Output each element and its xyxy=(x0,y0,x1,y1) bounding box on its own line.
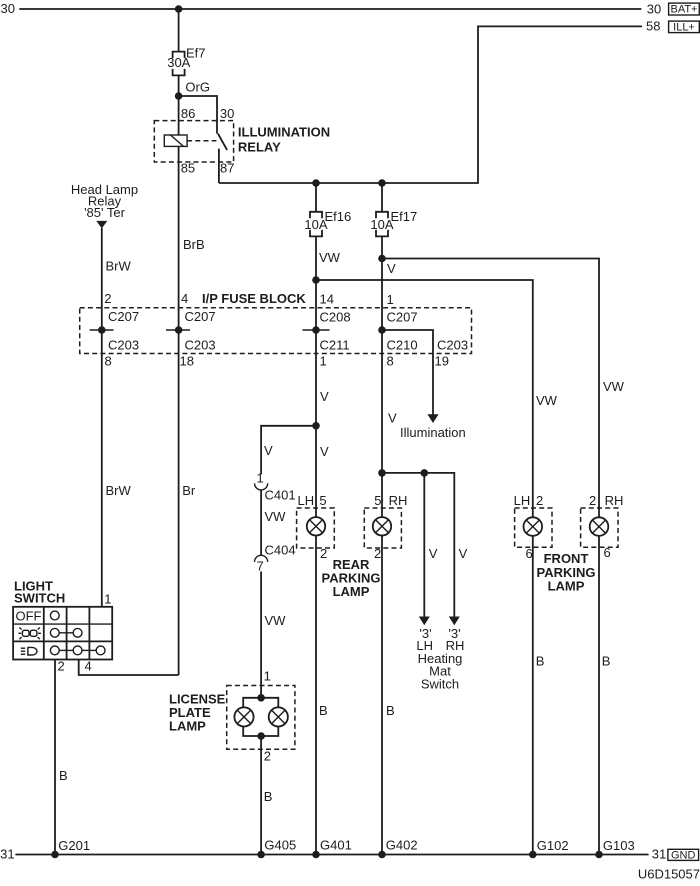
node BAT+ box xyxy=(669,3,700,16)
svg-text:2: 2 xyxy=(536,493,543,508)
svg-text:86: 86 xyxy=(181,106,195,121)
wire OrG to relay pin30 xyxy=(179,96,217,134)
light switch table xyxy=(13,607,112,660)
svg-text:31: 31 xyxy=(652,847,666,862)
svg-text:G103: G103 xyxy=(603,838,635,853)
svg-text:OrG: OrG xyxy=(185,80,210,95)
svg-text:8: 8 xyxy=(387,354,394,369)
svg-text:4: 4 xyxy=(85,659,92,674)
junction license top xyxy=(257,694,265,702)
switch contacts row3 xyxy=(50,646,105,655)
rear parking lamp RH box xyxy=(364,508,401,548)
ground G103 xyxy=(595,838,635,858)
svg-text:1: 1 xyxy=(264,669,271,684)
svg-text:C208: C208 xyxy=(320,310,351,325)
connector C401 pin1 xyxy=(255,471,296,503)
ground G402 xyxy=(378,838,417,859)
svg-text:V: V xyxy=(388,411,397,426)
svg-text:V: V xyxy=(264,443,273,458)
svg-text:2: 2 xyxy=(374,546,381,561)
junction Ef16 branch xyxy=(312,276,320,284)
switch contact row1 col2 xyxy=(50,611,59,620)
front parking lamp LH box xyxy=(515,508,552,547)
front parking lamp RH pin2 label xyxy=(589,493,623,508)
svg-text:Switch: Switch xyxy=(421,677,459,692)
svg-text:C207: C207 xyxy=(185,309,216,324)
svg-text:I/P FUSE BLOCK: I/P FUSE BLOCK xyxy=(202,291,306,306)
svg-text:BrW: BrW xyxy=(106,483,132,498)
connector C404 pin7 xyxy=(255,543,296,574)
Heating Mat Switch label xyxy=(418,651,463,692)
svg-text:30: 30 xyxy=(220,106,234,121)
wire branch to license lamp xyxy=(261,426,316,475)
svg-text:G401: G401 xyxy=(320,838,352,853)
svg-text:2: 2 xyxy=(104,291,111,306)
wire Ef17 output down xyxy=(381,236,383,517)
node GND box xyxy=(668,849,699,861)
svg-text:RH: RH xyxy=(389,493,408,508)
svg-text:C207: C207 xyxy=(387,310,418,325)
svg-text:B: B xyxy=(319,703,328,718)
rear parking lamp RH pin5 label xyxy=(374,493,407,508)
switch contacts row2 xyxy=(50,628,82,637)
svg-text:V: V xyxy=(459,546,468,561)
svg-text:LH: LH xyxy=(298,493,315,508)
svg-text:6: 6 xyxy=(526,546,533,561)
ground G405 xyxy=(257,838,296,859)
svg-text:58: 58 xyxy=(646,19,660,34)
svg-text:31: 31 xyxy=(0,847,14,862)
junction tick C207-4/C203-18 xyxy=(166,326,190,334)
I/P fuse block dashed box xyxy=(80,308,472,354)
svg-text:18: 18 xyxy=(180,354,194,369)
svg-text:RELAY: RELAY xyxy=(238,140,281,155)
wire front LH to ground xyxy=(532,536,534,855)
wire Ef17 branch to front RH lamp xyxy=(382,259,599,518)
svg-text:Ef17: Ef17 xyxy=(391,209,418,224)
wire illumination branch xyxy=(382,330,433,415)
svg-text:G402: G402 xyxy=(386,838,418,853)
wire license lamp to ground xyxy=(260,736,262,855)
svg-text:87: 87 xyxy=(220,161,234,176)
svg-text:30: 30 xyxy=(1,1,15,16)
svg-text:U6D15057: U6D15057 xyxy=(638,867,700,882)
svg-text:G405: G405 xyxy=(264,838,296,853)
lamp front LH xyxy=(524,517,543,536)
svg-text:Illumination: Illumination xyxy=(400,425,466,440)
svg-text:5: 5 xyxy=(374,493,381,508)
fuse Ef17 10A xyxy=(370,183,417,236)
svg-text:G102: G102 xyxy=(537,838,569,853)
svg-text:SWITCH: SWITCH xyxy=(14,591,65,606)
node ILL+ box xyxy=(669,21,700,33)
wire heating mat LH xyxy=(423,473,425,618)
illumination relay dashed box xyxy=(154,121,233,162)
lamp rear RH xyxy=(373,517,391,535)
svg-text:LAMP: LAMP xyxy=(333,584,370,599)
svg-text:C203: C203 xyxy=(437,338,468,353)
junction rail at Ef16 xyxy=(312,179,320,187)
wire front RH to ground xyxy=(598,536,600,855)
svg-text:2: 2 xyxy=(589,493,596,508)
svg-text:1: 1 xyxy=(387,292,394,307)
rear parking lamp LH box xyxy=(297,508,335,548)
fuse Ef7 30A xyxy=(167,46,205,76)
wire C404 down to license lamp xyxy=(260,572,262,698)
svg-text:B: B xyxy=(386,703,395,718)
svg-text:VW: VW xyxy=(265,613,287,628)
LICENSE PLATE LAMP title xyxy=(169,692,226,734)
svg-text:LAMP: LAMP xyxy=(548,579,585,594)
svg-text:VW: VW xyxy=(536,393,558,408)
wire Ef16 branch to front LH lamp xyxy=(316,280,533,517)
wire C401 to C404 xyxy=(260,490,262,555)
REAR PARKING LAMP title xyxy=(322,557,381,599)
svg-text:C211: C211 xyxy=(320,338,350,353)
ground G401 xyxy=(312,838,352,859)
svg-text:ILL+: ILL+ xyxy=(673,21,695,33)
Head Lamp Relay source label xyxy=(71,182,138,220)
svg-text:BrB: BrB xyxy=(183,237,205,252)
wire Ef7 input xyxy=(178,9,180,52)
svg-text:Br: Br xyxy=(182,483,196,498)
svg-text:V: V xyxy=(429,546,438,561)
wire branch to heating mat switch xyxy=(382,473,454,618)
svg-text:V: V xyxy=(320,444,329,459)
svg-text:VW: VW xyxy=(265,509,287,524)
svg-text:30A: 30A xyxy=(167,55,190,70)
headlamp icon xyxy=(21,647,37,655)
svg-text:6: 6 xyxy=(604,545,611,560)
svg-text:2: 2 xyxy=(58,659,65,674)
svg-text:LAMP: LAMP xyxy=(169,719,206,734)
svg-text:GND: GND xyxy=(671,849,696,861)
wire switch pin2 to G201 xyxy=(54,660,56,855)
ground G102 xyxy=(529,838,569,858)
svg-text:VW: VW xyxy=(319,250,341,265)
svg-text:30: 30 xyxy=(647,2,661,17)
arrow illumination xyxy=(427,414,438,423)
svg-text:C207: C207 xyxy=(108,309,139,324)
svg-text:19: 19 xyxy=(435,354,449,369)
junction tick C207-2/C203-8 xyxy=(90,326,114,334)
svg-text:ILLUMINATION: ILLUMINATION xyxy=(238,125,330,140)
junction tick C208-14/C211-1 xyxy=(303,326,330,334)
lamp rear LH xyxy=(307,517,325,535)
svg-text:OFF: OFF xyxy=(16,609,42,624)
svg-text:BAT+: BAT+ xyxy=(670,4,697,16)
svg-text:14: 14 xyxy=(320,292,334,307)
wire pin85 turn to switch pin4 xyxy=(79,660,179,676)
junction heating mat LH xyxy=(421,469,429,477)
relay switch blade xyxy=(218,134,227,150)
svg-text:1: 1 xyxy=(320,354,327,369)
svg-text:1: 1 xyxy=(257,471,264,486)
wire relay pin87 down to rail xyxy=(218,149,220,183)
arrow heating LH xyxy=(419,617,430,626)
wire BrW head lamp relay to light switch pin1 xyxy=(101,228,103,607)
svg-text:B: B xyxy=(59,768,68,783)
svg-text:LH: LH xyxy=(514,493,531,508)
svg-text:1: 1 xyxy=(104,592,111,607)
junction Ef17 output xyxy=(378,255,386,263)
junction rail at Ef17 xyxy=(378,179,386,187)
relay internal dashed link xyxy=(187,140,216,142)
svg-text:FRONT: FRONT xyxy=(544,551,589,566)
wire rear RH to ground xyxy=(381,536,383,855)
svg-text:C404: C404 xyxy=(265,543,296,558)
arrow heating RH xyxy=(449,617,460,626)
svg-text:10A: 10A xyxy=(370,217,393,232)
arrow from head lamp relay xyxy=(96,221,107,229)
junction license bottom xyxy=(257,732,265,740)
svg-text:5: 5 xyxy=(319,493,326,508)
wire rear LH to ground xyxy=(315,536,317,855)
wire relay pin85 down xyxy=(178,146,180,675)
svg-text:V: V xyxy=(387,261,396,276)
svg-text:Ef16: Ef16 xyxy=(325,209,352,224)
svg-text:2: 2 xyxy=(264,749,271,764)
svg-text:C401: C401 xyxy=(265,488,296,503)
svg-text:8: 8 xyxy=(105,354,112,369)
svg-text:G201: G201 xyxy=(58,838,90,853)
front parking lamp LH pin2 label xyxy=(514,493,544,508)
junction rear RH branch xyxy=(378,469,386,477)
svg-text:B: B xyxy=(602,654,611,669)
wire Ef7 output / relay pin86 xyxy=(178,75,180,135)
svg-text:VW: VW xyxy=(603,379,625,394)
svg-text:C210: C210 xyxy=(387,338,418,353)
node OrG junction xyxy=(175,92,183,100)
ILLUMINATION RELAY title xyxy=(238,125,330,155)
svg-text:RH: RH xyxy=(605,493,624,508)
lamp front RH xyxy=(590,517,609,536)
front parking lamp RH box xyxy=(581,508,618,547)
FRONT PARKING LAMP title xyxy=(537,551,596,594)
wire net-30 top rail xyxy=(19,8,641,10)
license plate lamp dashed box xyxy=(227,686,295,750)
parking lamp icon xyxy=(18,628,41,640)
wire net-58 from ILL+ to relay output rail xyxy=(219,26,642,183)
junction to license lamp branch xyxy=(312,422,320,430)
svg-text:C203: C203 xyxy=(185,338,216,353)
svg-text:C203: C203 xyxy=(108,338,139,353)
svg-text:B: B xyxy=(264,789,273,804)
rear parking lamp LH pin5 label xyxy=(298,493,327,508)
fuse Ef16 10A xyxy=(304,183,351,236)
svg-text:BrW: BrW xyxy=(106,259,132,274)
relay coil xyxy=(164,135,187,146)
junction C207-1/C210-8 xyxy=(378,326,386,334)
svg-text:B: B xyxy=(536,654,545,669)
svg-text:'85' Ter: '85' Ter xyxy=(84,205,126,220)
lamp license right xyxy=(269,707,288,726)
svg-text:85: 85 xyxy=(181,161,195,176)
svg-text:2: 2 xyxy=(320,546,327,561)
lamp license left xyxy=(234,707,253,726)
svg-text:V: V xyxy=(320,389,329,404)
svg-text:7: 7 xyxy=(257,559,264,574)
junction on net-30 at Ef7 xyxy=(175,5,183,13)
LIGHT SWITCH title xyxy=(14,579,65,606)
wire ground rail xyxy=(15,854,648,856)
svg-text:4: 4 xyxy=(181,291,188,306)
ground G201 xyxy=(51,838,90,858)
wire Ef16 output down xyxy=(315,236,317,517)
svg-text:10A: 10A xyxy=(304,217,327,232)
license lamp parallel wiring xyxy=(243,698,278,708)
